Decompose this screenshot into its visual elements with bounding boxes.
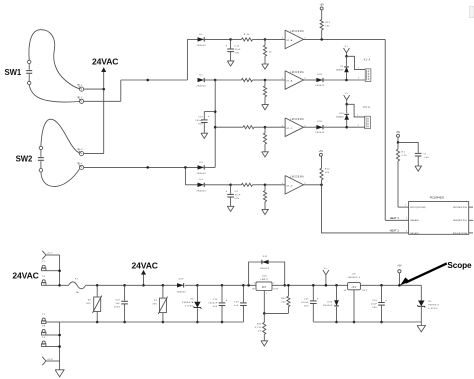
svg-text:D34: D34 — [340, 113, 344, 115]
wire right bus down — [384, 39, 386, 220]
node row1 pulldown junction — [264, 38, 267, 41]
bottom rail (output section) — [313, 321, 421, 323]
svg-text:R40: R40 — [281, 298, 286, 300]
wire op-amp3 output — [303, 126, 317, 128]
svg-text:S1: S1 — [154, 300, 158, 302]
svg-text:R11: R11 — [325, 22, 330, 24]
terminal T9 — [42, 337, 60, 347]
terminal TB1-4 — [77, 163, 84, 170]
switch SW1 contacts — [26, 60, 32, 85]
svg-text:RB5/KBI1/PGM: RB5/KBI1/PGM — [453, 233, 468, 235]
diode D29 1N4003 — [176, 278, 186, 293]
svg-text:10k: 10k — [325, 26, 329, 28]
resistor R43 4.12k 1% — [255, 313, 266, 340]
resistor R1 2.2k — [396, 142, 407, 207]
diode D34 1N4003 flyback — [336, 104, 349, 127]
wire 24VAC down to TB1-3 — [84, 89, 104, 154]
node S1 top — [162, 284, 165, 287]
wire V+ jog to relay pin1 — [347, 56, 366, 69]
terminal T5 — [42, 261, 60, 271]
svg-text:.1uF: .1uF — [423, 157, 429, 159]
node C12 junction — [229, 38, 232, 41]
svg-text:TB1-3: TB1-3 — [77, 149, 83, 151]
node V+ K1 dot — [345, 55, 348, 58]
svg-text:100uF: 100uF — [195, 120, 203, 122]
net label HEAT 1 — [390, 216, 400, 220]
svg-text:.1uF: .1uF — [233, 305, 239, 307]
diode D4 2N4003 — [196, 179, 206, 192]
wire TB1-4 bus — [84, 166, 198, 168]
svg-text:V+: V+ — [345, 93, 349, 95]
switch SW1 label — [5, 68, 22, 77]
capacitor C12 47uF 50V — [225, 39, 241, 61]
node C10 top — [123, 284, 126, 287]
svg-text:RA1/AN1: RA1/AN1 — [410, 232, 419, 235]
svg-text:MCLR(VPP/RE3): MCLR(VPP/RE3) — [410, 207, 426, 209]
net label 24VAC (top) — [92, 56, 118, 66]
relay K3-A — [363, 106, 370, 129]
svg-text:47uF: 47uF — [235, 195, 242, 197]
node R12 junction — [320, 184, 323, 187]
svg-text:1: 1 — [266, 293, 267, 295]
24VAC arrow (top) — [101, 67, 106, 89]
ground for C4 — [227, 206, 234, 211]
net V+ (K3) — [344, 93, 350, 104]
regulator U9 LM340T-5 — [344, 273, 368, 292]
ground for C13 — [201, 133, 208, 138]
resistor R11 10k pull-up — [320, 10, 331, 40]
capacitor C10 1uF 230V — [114, 285, 128, 322]
varistor S1 30V — [153, 285, 168, 322]
svg-text:24VAC: 24VAC — [92, 56, 118, 66]
node +5V rail dot — [398, 284, 401, 287]
svg-text:U10: U10 — [262, 276, 267, 278]
svg-text:D1: D1 — [200, 34, 204, 36]
svg-text:+5V: +5V — [320, 3, 325, 6]
diode D2 2N4003 — [196, 74, 206, 87]
relay K1-A — [364, 58, 371, 81]
svg-text:2N4003: 2N4003 — [196, 86, 206, 88]
svg-text:TB1-2: TB1-2 — [77, 97, 83, 99]
node relay K3 coil dot — [345, 126, 348, 129]
capacitor C13 100uF 50V — [195, 112, 215, 134]
op-amp U1-C — [282, 118, 306, 137]
svg-text:D32: D32 — [328, 302, 333, 304]
svg-text:+: + — [225, 44, 227, 47]
resistor R40 240 — [281, 285, 290, 313]
ground row4 pulldown — [262, 209, 269, 214]
switch SW2 contacts — [38, 146, 44, 172]
wire LM317 out rail — [272, 284, 348, 286]
svg-text:RB6/KBI2/PGC: RB6/KBI2/PGC — [453, 220, 468, 222]
PIC right pin stubs — [469, 207, 473, 233]
resistor row2 — [242, 78, 266, 81]
svg-text:240: 240 — [281, 302, 286, 304]
svg-text:47uF: 47uF — [235, 49, 242, 51]
diode D32 1N4003 — [323, 285, 339, 322]
svg-text:OUT: OUT — [273, 289, 279, 291]
capacitor C15 1000uF 50V — [208, 285, 227, 322]
net V+ (K1) — [344, 46, 350, 57]
node C10 bottom — [123, 321, 126, 324]
terminal T8 — [42, 326, 60, 336]
svg-text:RA0/AN0: RA0/AN0 — [410, 219, 419, 222]
node row2 pulldown junction — [264, 79, 267, 82]
svg-text:IN: IN — [252, 289, 255, 291]
switch SW2 loop wire to TB1-3 — [41, 119, 80, 153]
svg-text:R43: R43 — [257, 324, 262, 326]
node ADJ junction — [263, 312, 266, 315]
wire rail to C19 — [222, 284, 243, 286]
fuse F1 1A — [69, 278, 86, 294]
svg-text:LM339MA: LM339MA — [290, 118, 304, 121]
svg-text:4: 4 — [282, 78, 283, 80]
wire HEAT 1 into PIC — [385, 219, 408, 221]
switch SW1 wire to TB1-2 — [29, 85, 79, 102]
svg-text:C15: C15 — [213, 299, 218, 301]
capacitor C16 10uF 50V — [371, 285, 387, 322]
capacitor C4 47uF 50V — [225, 185, 241, 207]
wire rail to fuse — [60, 284, 69, 286]
resistor pulldown row4 — [263, 185, 266, 210]
svg-text:2: 2 — [406, 218, 407, 220]
node S3 top — [196, 284, 199, 287]
wire U9 ground pin — [353, 290, 355, 322]
node C21 top — [312, 284, 315, 287]
node C19 top — [242, 284, 245, 287]
svg-text:50V: 50V — [304, 306, 309, 308]
svg-text:U1-C: U1-C — [286, 128, 293, 130]
svg-text:24VAC: 24VAC — [12, 271, 38, 281]
wire J2-8 — [46, 361, 60, 370]
svg-text:50V: 50V — [235, 53, 240, 55]
node R11 junction — [320, 38, 323, 41]
+5V supply (R12) — [319, 150, 324, 156]
TVS S3 P6KE47A 47VDC — [182, 285, 201, 322]
svg-text:4: 4 — [282, 183, 283, 185]
wire V+ jog to K3 pin1 — [347, 104, 365, 117]
svg-text:1N4003: 1N4003 — [323, 305, 333, 307]
resistor 1k pulldown row1 — [263, 39, 272, 64]
node S4 top — [96, 284, 99, 287]
capacitor C21 100uF 50V — [301, 285, 319, 322]
svg-text:T5: T5 — [42, 261, 46, 263]
svg-text:317: 317 — [262, 285, 267, 289]
wire to relay K3 pin2 — [347, 125, 365, 127]
svg-text:D33: D33 — [317, 74, 322, 76]
wire D4 to C4 node — [205, 184, 231, 186]
node D31 right — [283, 284, 286, 287]
resistor row3 — [243, 126, 265, 129]
ground for R43 — [261, 341, 268, 346]
svg-text:+: + — [317, 298, 319, 301]
svg-text:T9: T9 — [42, 337, 46, 339]
wire D2 node to resistor row2 — [215, 79, 241, 81]
svg-text:1N4003: 1N4003 — [315, 132, 325, 134]
svg-text:2: 2 — [358, 125, 359, 127]
connector J2-7 — [42, 251, 53, 259]
svg-text:1: 1 — [358, 67, 359, 69]
net label 24VAC (left) — [12, 271, 38, 281]
+5V output supply — [397, 264, 402, 285]
svg-text:+5V: +5V — [396, 131, 401, 134]
node D32 top — [335, 284, 338, 287]
svg-text:230V: 230V — [114, 306, 121, 308]
svg-text:+5V: +5V — [351, 287, 356, 289]
svg-text:50V: 50V — [235, 198, 240, 200]
svg-text:1N4003: 1N4003 — [336, 116, 344, 118]
switch SW2 wire to TB1-4 — [41, 169, 80, 187]
wire TB1-1 to 24VAC node — [84, 88, 104, 90]
svg-text:1: 1 — [405, 205, 406, 207]
svg-text:LM339MA: LM339MA — [290, 71, 304, 74]
svg-text:10uF: 10uF — [371, 304, 378, 306]
wire D33 to relay node — [324, 79, 347, 81]
node T9 junction — [58, 345, 61, 348]
wire J2-7 to vertical — [46, 255, 60, 285]
svg-text:1k: 1k — [269, 51, 273, 53]
node C13 tap — [214, 110, 217, 113]
ground for S5 — [417, 326, 425, 332]
svg-text:4.3k: 4.3k — [244, 34, 250, 36]
+5V supply (R1) — [396, 131, 401, 143]
svg-text:Scope: Scope — [447, 261, 472, 270]
svg-text:T7: T7 — [42, 314, 46, 316]
svg-text:2N4003: 2N4003 — [196, 190, 206, 192]
label Scope — [447, 261, 472, 270]
svg-text:V+: V+ — [324, 268, 328, 270]
diode D33 1N4003 — [315, 74, 325, 87]
svg-text:SW2: SW2 — [16, 154, 33, 163]
node U9 gnd — [353, 321, 356, 324]
svg-text:30V: 30V — [86, 303, 91, 305]
svg-text:J2-7: J2-7 — [47, 253, 53, 255]
capacitor C19 .1uF — [233, 285, 246, 322]
ground row1 pulldown — [262, 64, 269, 69]
node row4 pulldown junction — [264, 184, 267, 187]
node C16 bottom — [380, 321, 383, 324]
node C15 bottom — [221, 321, 224, 324]
wire D29 to S3 node — [185, 284, 198, 286]
svg-text:C21: C21 — [304, 299, 309, 301]
node 24VAC bottom junction — [142, 284, 145, 287]
node C4 junction — [229, 184, 232, 187]
varistor S4 30V — [86, 285, 102, 322]
ground row2 pulldown — [262, 105, 269, 110]
wire row3 to resistor — [215, 126, 243, 128]
svg-text:C12: C12 — [235, 46, 240, 48]
svg-text:U9: U9 — [352, 273, 356, 275]
svg-text:LM339MA: LM339MA — [290, 176, 304, 179]
svg-text:PIC18F4520: PIC18F4520 — [430, 196, 445, 200]
svg-text:C1: C1 — [423, 153, 427, 155]
resistor pulldown row3 — [263, 127, 266, 152]
node 24VAC junction — [102, 88, 105, 91]
svg-text:50V: 50V — [213, 306, 218, 308]
op-amp U1-D — [282, 176, 306, 195]
node dot on D2 bus — [146, 79, 149, 82]
svg-text:2N4003: 2N4003 — [196, 173, 206, 175]
svg-text:2: 2 — [273, 283, 274, 285]
capacitor C1 .1uF — [398, 142, 429, 166]
svg-text:V+: V+ — [345, 46, 349, 48]
wire row2 to op-amp — [265, 79, 285, 81]
wire to relay K1 pin2 — [347, 78, 366, 80]
svg-text:IN: IN — [344, 290, 347, 292]
svg-text:R1: R1 — [402, 151, 406, 153]
terminal TB1-3 — [77, 149, 84, 156]
op-amp U1-B — [282, 71, 306, 90]
wire op-amp2 output — [303, 79, 317, 81]
node V+ rail dot — [325, 284, 328, 287]
svg-text:2.2k: 2.2k — [402, 155, 407, 157]
svg-text:U1-A: U1-A — [286, 39, 293, 42]
svg-text:50V: 50V — [372, 307, 377, 309]
svg-text:6.0VDC: 6.0VDC — [428, 308, 438, 310]
scope arrow — [400, 263, 447, 285]
node R40 top — [287, 284, 290, 287]
net label 24VAC (bottom middle) — [132, 261, 158, 271]
svg-text:P6KE6.8: P6KE6.8 — [428, 304, 439, 306]
node S4 bottom — [96, 321, 99, 324]
svg-text:T8: T8 — [42, 326, 46, 328]
wire rail to S1 — [125, 284, 163, 286]
svg-text:C19: C19 — [234, 301, 239, 303]
svg-text:1N4003: 1N4003 — [315, 85, 325, 87]
svg-text:HEAT 2: HEAT 2 — [390, 229, 400, 233]
svg-text:1: 1 — [357, 115, 358, 117]
svg-text:2: 2 — [358, 78, 359, 80]
svg-text:C13: C13 — [198, 116, 203, 118]
wire U9 out rail — [360, 284, 421, 286]
terminal TB1-2 — [77, 97, 84, 104]
wire rail to LM317 IN — [243, 284, 256, 286]
wire rail to C15 — [197, 284, 222, 286]
svg-text:TB1-4: TB1-4 — [77, 163, 83, 165]
terminal T7 — [42, 314, 60, 324]
svg-text:D2: D2 — [200, 74, 204, 76]
wire row4 to op-amp — [265, 184, 285, 186]
diode D1 2N4003 — [196, 34, 206, 47]
svg-text:TB1-1: TB1-1 — [77, 84, 83, 86]
diode D35 1N4003 — [315, 121, 325, 134]
svg-text:C16: C16 — [372, 300, 377, 302]
svg-text:4: 4 — [282, 125, 283, 127]
op-amp U1-A — [282, 30, 306, 49]
node row3 pulldown junction — [264, 126, 267, 129]
wire MCLR into PIC — [398, 205, 409, 208]
diode D3 2N4003 — [196, 162, 206, 175]
svg-text:S4: S4 — [88, 300, 92, 302]
switch SW1 loop wire to TB1-1 — [29, 30, 80, 89]
wire row3 to op-amp — [265, 126, 285, 128]
node dot on TB1-4 bus — [146, 166, 149, 169]
ground for C1 — [415, 166, 422, 171]
svg-text:D35: D35 — [317, 121, 322, 123]
svg-text:U1-D: U1-D — [286, 185, 293, 187]
node S1 bottom — [162, 321, 165, 324]
svg-text:1N4003: 1N4003 — [176, 291, 186, 293]
wire row1 to op-amp — [265, 38, 285, 40]
svg-text:T6: T6 — [42, 276, 46, 278]
svg-text:K3-A: K3-A — [363, 106, 370, 109]
svg-text:+: + — [208, 115, 210, 118]
svg-text:S3: S3 — [190, 298, 194, 300]
node T8 junction — [58, 334, 61, 337]
svg-text:1N4003: 1N4003 — [336, 69, 344, 71]
svg-text:R12: R12 — [325, 169, 330, 171]
svg-text:LM339MA: LM339MA — [290, 30, 304, 33]
svg-text:LM317: LM317 — [260, 279, 269, 281]
wire fuse to S4 node — [86, 284, 98, 286]
svg-text:4: 4 — [282, 38, 283, 40]
svg-text:F1: F1 — [75, 278, 79, 280]
wire split down to D4 row — [185, 167, 197, 184]
svg-text:47VDC: 47VDC — [185, 305, 194, 307]
svg-text:C4: C4 — [235, 191, 239, 193]
svg-text:1000uF: 1000uF — [208, 303, 218, 305]
node T6 junction — [58, 284, 61, 287]
bottom rail (input section) — [60, 321, 244, 323]
svg-text:+5V: +5V — [319, 150, 324, 153]
wire rail S4 to C10 — [97, 284, 124, 286]
node D32 bottom — [335, 321, 338, 324]
svg-text:1A: 1A — [76, 291, 80, 294]
svg-text:D29: D29 — [179, 278, 184, 280]
svg-text:1%: 1% — [258, 331, 262, 333]
node row3 tap — [214, 126, 217, 129]
svg-text:1N4003: 1N4003 — [260, 268, 270, 270]
ground row3 pulldown — [262, 152, 269, 157]
node relay K1 coil dot — [345, 79, 348, 82]
node V+ K3 dot — [345, 103, 348, 106]
resistor R12 10k pull-up — [320, 156, 330, 185]
wire T7 vertical — [59, 322, 61, 361]
svg-text:1uF: 1uF — [116, 303, 121, 305]
svg-text:+: + — [385, 299, 387, 302]
decorative corner box — [469, 6, 474, 18]
svg-text:3: 3 — [254, 283, 255, 285]
resistor row4 — [231, 183, 265, 186]
node C15 top — [221, 284, 224, 287]
svg-text:SW1: SW1 — [5, 68, 22, 77]
svg-text:C10: C10 — [115, 299, 120, 301]
svg-text:2N4003: 2N4003 — [196, 45, 206, 47]
svg-text:+: + — [226, 299, 228, 302]
connector J2-8 — [42, 357, 53, 365]
svg-text:D5: D5 — [341, 66, 344, 68]
+5V supply (R11) — [320, 3, 325, 10]
node D31 left — [247, 284, 250, 287]
svg-text:D4: D4 — [200, 179, 204, 181]
wire D2 to junction — [205, 79, 215, 81]
wire TB1-2 jog up to diode bus — [84, 80, 188, 101]
resistor 4.3k row1 — [231, 34, 265, 41]
svg-text:HEAT 1: HEAT 1 — [390, 216, 400, 220]
wire rail to D29 — [163, 284, 178, 286]
wire D35 to relay node — [324, 126, 347, 128]
node D2 output junction — [214, 79, 217, 82]
terminal T6 — [42, 276, 60, 286]
TVS S5 P6KE6.8 6.0VDC — [417, 285, 439, 325]
svg-text:24VAC: 24VAC — [132, 261, 158, 271]
svg-text:OUT: OUT — [362, 290, 368, 292]
svg-text:50V: 50V — [198, 123, 203, 125]
svg-text:+: + — [225, 190, 227, 193]
node T5 junction — [58, 270, 61, 273]
svg-text:S5: S5 — [428, 301, 432, 303]
net V+ (output rail) — [323, 268, 329, 286]
